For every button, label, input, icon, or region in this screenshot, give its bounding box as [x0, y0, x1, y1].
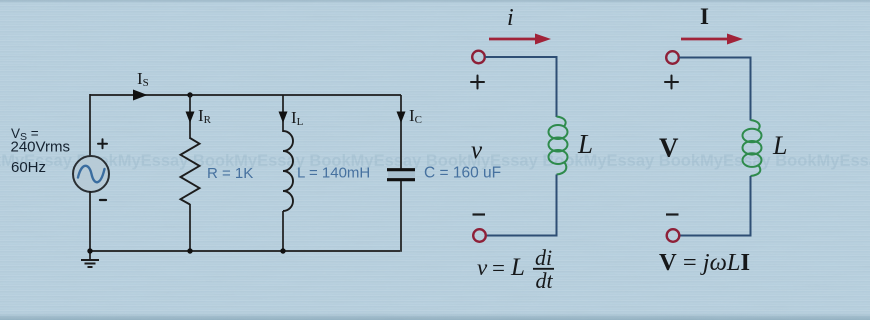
ground — [81, 251, 99, 267]
svg-text:R = 1K: R = 1K — [207, 165, 253, 182]
current arrow IL — [279, 112, 288, 124]
svg-text:V: V — [659, 133, 679, 163]
label VS value — [11, 126, 70, 176]
inductor L phasor — [743, 120, 762, 176]
label L time-domain — [577, 129, 593, 159]
wire C branch upper — [400, 95, 402, 169]
svg-text:240Vrms: 240Vrms — [11, 139, 70, 156]
svg-text:I: I — [700, 4, 709, 29]
svg-text:di: di — [535, 245, 552, 270]
wire top v-circuit — [485, 57, 557, 117]
terminal node bottom I-circuit — [667, 229, 680, 242]
wire C branch lower — [400, 181, 402, 252]
label + polarity v — [471, 76, 484, 89]
equation V = jwLI — [659, 249, 750, 276]
wire R branch upper — [189, 95, 191, 139]
svg-text:=: = — [492, 256, 505, 281]
current arrow IR — [186, 112, 195, 124]
current arrow IC — [397, 112, 406, 124]
terminal node bottom v-circuit — [473, 229, 486, 242]
wire top I-circuit — [679, 58, 751, 121]
voltage source VS — [73, 156, 109, 192]
label IC — [409, 106, 422, 126]
svg-text:v: v — [477, 255, 488, 280]
terminal node top I-circuit — [666, 51, 679, 64]
label L phasor — [772, 131, 787, 160]
node dot bottom R — [187, 248, 192, 253]
node dot bottom left — [87, 248, 92, 253]
wire top rail — [90, 94, 401, 96]
label IR — [198, 106, 212, 126]
label - polarity v — [473, 213, 486, 215]
svg-text:L: L — [510, 254, 525, 281]
wire L branch upper — [282, 95, 284, 132]
watermark — [0, 152, 870, 170]
svg-text:dt: dt — [535, 268, 553, 293]
label v — [471, 137, 483, 164]
svg-text:L: L — [772, 131, 787, 160]
label - polarity V — [666, 213, 679, 215]
svg-text:L = 140mH: L = 140mH — [297, 165, 370, 182]
label IL — [291, 108, 304, 128]
label R value — [207, 165, 253, 182]
node dot bottom L — [280, 248, 285, 253]
label + polarity V — [665, 76, 678, 89]
wire bottom v-circuit — [487, 175, 557, 236]
svg-text:V = jωLI: V = jωLI — [659, 249, 750, 276]
resistor R1 — [181, 138, 200, 205]
label i — [507, 5, 514, 31]
svg-text:60Hz: 60Hz — [11, 159, 46, 176]
inductor L1 — [283, 131, 293, 211]
wire R branch lower — [189, 204, 191, 251]
label C value — [424, 165, 501, 182]
node dot top R — [187, 92, 192, 97]
svg-text:v: v — [471, 137, 483, 164]
svg-text:L: L — [577, 129, 593, 159]
capacitor C1 — [387, 170, 415, 180]
wire L branch lower — [282, 211, 284, 251]
label V phasor — [659, 133, 679, 163]
current arrow i — [489, 34, 551, 45]
wire bottom I-circuit — [680, 176, 751, 236]
wire left rail lower — [89, 191, 91, 251]
equation v = L di/dt — [477, 245, 554, 293]
label - polarity source — [100, 199, 106, 201]
wire left rail upper — [89, 94, 91, 157]
label + polarity source — [98, 139, 107, 148]
inductor L time-domain — [549, 117, 568, 175]
svg-text:i: i — [507, 5, 514, 31]
svg-text:C = 160 uF: C = 160 uF — [424, 165, 501, 182]
label IS — [137, 69, 149, 89]
label I phasor — [700, 4, 709, 29]
terminal node top v-circuit — [472, 51, 485, 64]
wire bottom rail — [90, 250, 400, 252]
current arrow IS — [133, 90, 148, 101]
label L1 value — [297, 165, 370, 182]
current arrow I phasor — [681, 34, 743, 45]
